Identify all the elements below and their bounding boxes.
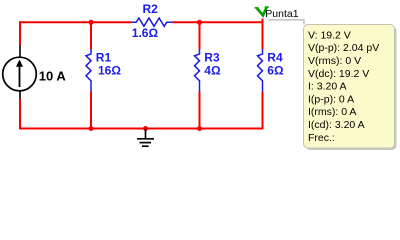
- info box shadow: [306, 27, 397, 151]
- wire top horizontal right segment: [172, 21, 263, 23]
- svg-text:1.6Ω: 1.6Ω: [132, 26, 159, 40]
- svg-text:Punta1: Punta1: [265, 8, 298, 20]
- svg-text:R3: R3: [204, 50, 220, 64]
- current source I1: [3, 45, 37, 99]
- svg-text:V(rms): 0 V: V(rms): 0 V: [308, 55, 361, 67]
- svg-text:I(cd): 3.20 A: I(cd): 3.20 A: [308, 119, 365, 131]
- resistor R4 symbol: [258, 49, 263, 92]
- junction top R1: [89, 20, 94, 25]
- wire left vertical upper: [19, 21, 21, 45]
- junction bottom ground: [143, 126, 148, 131]
- wire left vertical lower: [19, 99, 21, 129]
- svg-text:16Ω: 16Ω: [98, 64, 121, 78]
- wire R4 branch lower: [262, 92, 264, 130]
- leader line to info box: [269, 20, 305, 25]
- svg-text:V(p-p): 2.04 pV: V(p-p): 2.04 pV: [308, 42, 379, 54]
- ground: [137, 129, 154, 147]
- wire R1 branch lower: [90, 92, 92, 130]
- svg-text:4Ω: 4Ω: [204, 64, 221, 78]
- svg-text:I(p-p): 0 A: I(p-p): 0 A: [308, 93, 354, 105]
- svg-text:R4: R4: [267, 50, 283, 64]
- wire R3 branch upper: [199, 21, 201, 49]
- svg-text:I: 3.20 A: I: 3.20 A: [308, 81, 347, 93]
- probe Punta1 arrow: [255, 7, 269, 15]
- resistor R1 symbol: [86, 49, 91, 92]
- svg-text:I(rms): 0 A: I(rms): 0 A: [308, 106, 356, 118]
- wire bottom horizontal: [19, 128, 263, 130]
- svg-text:6Ω: 6Ω: [267, 64, 284, 78]
- junction bottom R1: [89, 126, 94, 131]
- svg-text:R1: R1: [96, 50, 112, 64]
- wire R1 branch upper: [90, 21, 92, 49]
- junction top R3: [197, 20, 202, 25]
- resistor R3 symbol: [195, 49, 200, 92]
- info box: [304, 25, 395, 149]
- svg-text:R2: R2: [143, 2, 159, 16]
- svg-text:V(dc): 19.2 V: V(dc): 19.2 V: [308, 68, 369, 80]
- junction bottom R3: [197, 126, 202, 131]
- info text: [308, 29, 379, 143]
- svg-text:Frec.:: Frec.:: [308, 132, 335, 144]
- wire R4 branch upper with probe stub: [262, 19, 264, 50]
- svg-text:V: 19.2 V: V: 19.2 V: [308, 29, 351, 41]
- resistor R2 symbol: [131, 18, 172, 26]
- svg-text:10 A: 10 A: [39, 68, 67, 83]
- wire R3 branch lower: [199, 92, 201, 130]
- wire top horizontal left segment: [19, 21, 131, 23]
